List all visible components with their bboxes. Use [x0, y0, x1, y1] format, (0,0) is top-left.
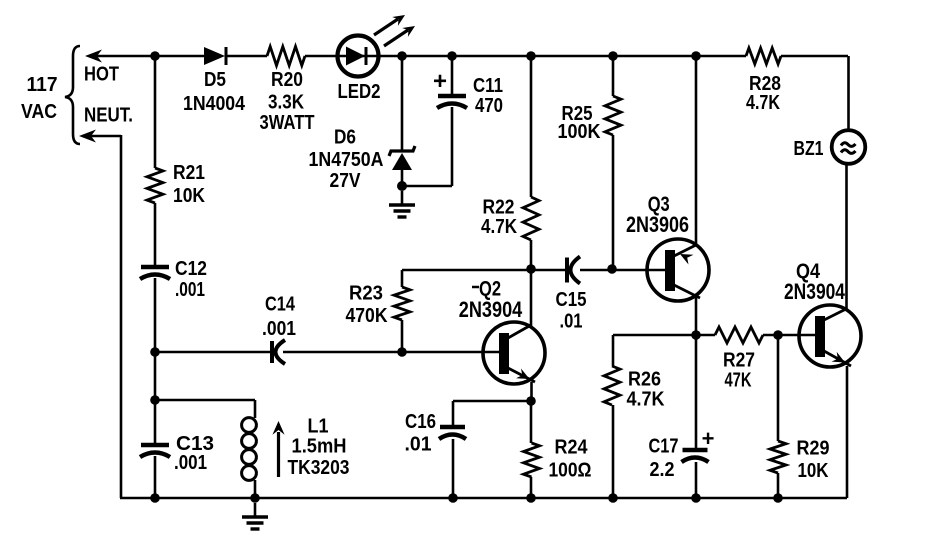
svg-text:27V: 27V	[330, 170, 362, 192]
svg-text:1.5mH: 1.5mH	[292, 436, 347, 458]
svg-text:3WATT: 3WATT	[260, 112, 315, 134]
svg-text:D6: D6	[334, 127, 356, 149]
svg-text:C14: C14	[265, 294, 296, 316]
svg-text:R27: R27	[723, 350, 755, 372]
svg-text:2N3904: 2N3904	[784, 279, 846, 304]
svg-text:10K: 10K	[173, 185, 205, 207]
svg-text:VAC: VAC	[21, 101, 57, 123]
svg-text:HOT: HOT	[84, 64, 119, 86]
svg-text:R29: R29	[797, 438, 830, 460]
svg-text:470: 470	[475, 95, 503, 117]
svg-text:2N3906: 2N3906	[626, 212, 689, 237]
svg-text:C11: C11	[473, 75, 503, 97]
svg-text:10K: 10K	[798, 460, 829, 482]
svg-text:C17: C17	[649, 436, 679, 458]
svg-text:100K: 100K	[558, 121, 602, 143]
svg-text:.001: .001	[262, 318, 296, 340]
svg-text:+: +	[702, 426, 715, 451]
svg-text:.001: .001	[175, 279, 205, 301]
svg-text:R24: R24	[555, 437, 589, 459]
svg-text:R20: R20	[271, 69, 303, 91]
svg-text:47K: 47K	[725, 370, 752, 392]
svg-text:2N3904: 2N3904	[459, 297, 523, 322]
svg-text:4.7K: 4.7K	[746, 92, 780, 114]
svg-text:D5: D5	[204, 69, 226, 91]
svg-text:470K: 470K	[346, 305, 388, 327]
svg-text:R26: R26	[628, 369, 661, 391]
svg-text:100Ω: 100Ω	[549, 460, 592, 482]
svg-text:C16: C16	[405, 411, 436, 433]
svg-text:1N4750A: 1N4750A	[309, 149, 384, 171]
svg-text:TK3203: TK3203	[288, 457, 350, 479]
svg-text:NEUT.: NEUT.	[84, 105, 133, 127]
svg-text:C15: C15	[556, 289, 587, 311]
svg-text:.001: .001	[174, 452, 207, 474]
svg-text:.01: .01	[405, 434, 432, 456]
svg-text:4.7K: 4.7K	[627, 389, 665, 411]
svg-text:4.7K: 4.7K	[481, 216, 517, 238]
svg-text:.01: .01	[560, 311, 583, 333]
svg-text:3.3K: 3.3K	[268, 92, 304, 114]
svg-text:L1: L1	[308, 416, 329, 438]
svg-text:C12: C12	[175, 258, 207, 280]
svg-text:1N4004: 1N4004	[183, 93, 246, 115]
svg-text:R23: R23	[349, 283, 383, 305]
svg-text:R21: R21	[173, 162, 205, 184]
svg-text:LED2: LED2	[338, 81, 381, 103]
svg-text:+: +	[433, 68, 447, 95]
svg-text:2.2: 2.2	[650, 459, 675, 481]
svg-text:117: 117	[27, 74, 58, 96]
svg-text:BZ1: BZ1	[794, 138, 824, 160]
